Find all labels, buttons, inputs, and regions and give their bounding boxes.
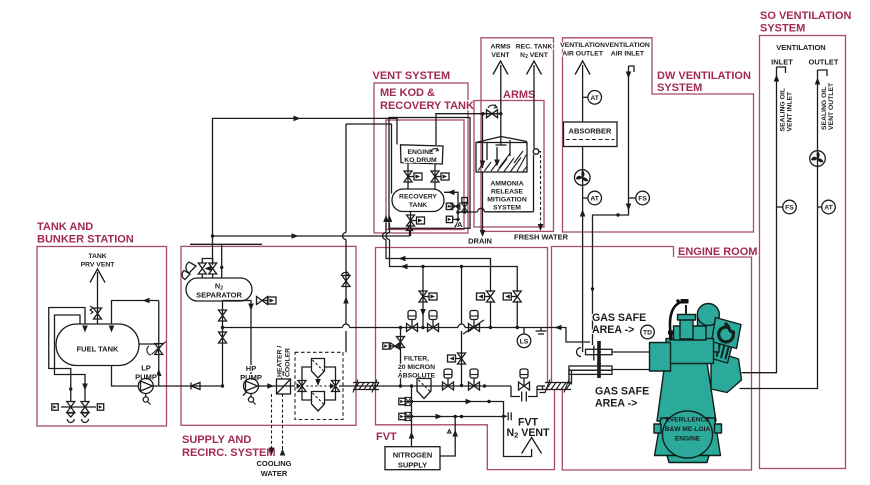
recirc valve 2 — [428, 324, 439, 332]
svg-text:AIR INLET: AIR INLET — [611, 51, 645, 58]
valve on riser — [342, 276, 350, 287]
engine turbo column — [698, 316, 720, 352]
svg-text:RELEASE: RELEASE — [491, 189, 524, 196]
valve separator drain 2 — [219, 332, 227, 343]
svg-text:BUNKER STATION: BUNKER STATION — [37, 234, 134, 246]
engine exhaust hose — [670, 302, 684, 332]
FVT vapor return line 2 — [390, 240, 518, 293]
valve ARMS vent ball — [487, 110, 498, 118]
svg-text:RECOVERY TANK: RECOVERY TANK — [380, 100, 474, 112]
fresh water dashed line — [539, 152, 541, 229]
wire FVT liquid header — [401, 385, 512, 387]
engine cooler fins — [709, 340, 733, 363]
vent arrow ARMS — [493, 61, 508, 75]
inlet bracket — [777, 67, 786, 73]
wire N2 distribution upper — [412, 402, 504, 417]
drip tray 2 — [82, 413, 89, 423]
svg-text:SUPPLY AND: SUPPLY AND — [182, 434, 251, 446]
svg-text:FS: FS — [638, 196, 647, 203]
absorber — [564, 122, 618, 147]
wire LP pump discharge — [153, 385, 223, 387]
svg-text:DRAIN: DRAIN — [468, 237, 492, 246]
valve separator drain 1 — [219, 310, 227, 321]
fan DW — [575, 170, 591, 186]
svg-text:FUEL TANK: FUEL TANK — [77, 345, 119, 354]
filter element bottom — [312, 392, 325, 412]
wire duct below absorber — [582, 147, 584, 353]
engine flywheel — [663, 411, 713, 458]
vent arrow REC tank — [527, 61, 542, 75]
valve return 1 — [487, 291, 495, 302]
svg-text:SEALING OIL: SEALING OIL — [821, 87, 828, 130]
wire supply riser to vent system — [345, 124, 347, 233]
svg-text:VENTILATION: VENTILATION — [776, 43, 825, 52]
svg-text:SO VENTILATION: SO VENTILATION — [760, 10, 852, 22]
wire inlet duct — [593, 66, 629, 345]
wire recovery tank right header — [444, 192, 458, 226]
ARMS tank top 3d — [476, 137, 527, 143]
svg-text:B&W ME-LGIA: B&W ME-LGIA — [665, 426, 711, 433]
vent connector — [502, 415, 505, 418]
svg-text:MITIGATION: MITIGATION — [487, 197, 527, 204]
N2 separator — [186, 278, 252, 301]
svg-text:ENGINE: ENGINE — [407, 149, 434, 156]
svg-text:AREA ->: AREA -> — [592, 324, 634, 336]
instrument AT SO — [818, 206, 822, 208]
heater/cooler — [277, 379, 291, 394]
wire outlet duct — [582, 65, 584, 122]
recirc valve 1 — [407, 324, 418, 332]
outlet vent arrow — [575, 61, 590, 75]
svg-text:PUMP: PUMP — [135, 373, 157, 382]
drip tray 1 — [67, 413, 74, 423]
engine chain case — [711, 350, 742, 393]
wire FVT N2 vent — [504, 416, 532, 456]
wire vapor line tank to ME KOD — [213, 118, 390, 265]
svg-text:RECOVERY: RECOVERY — [399, 194, 437, 201]
closed drain symbol — [536, 328, 547, 335]
engine A-frame — [657, 362, 716, 421]
riser between headers — [399, 326, 402, 329]
svg-text:AIR OUTLET: AIR OUTLET — [562, 51, 604, 58]
wire bunker fill inner loop — [55, 315, 86, 402]
instrument AT lower — [583, 197, 588, 199]
instrument TD — [641, 325, 655, 339]
pump HP drain — [250, 394, 252, 398]
wire to FVT — [339, 385, 401, 387]
wire long vapor line from supply riser — [346, 124, 392, 193]
wire drum to recovery tank legs — [407, 163, 409, 189]
control valve main — [469, 324, 480, 332]
engine silencer spiral — [719, 323, 734, 342]
box ARMS — [474, 101, 544, 228]
wire return line elbow — [555, 325, 562, 331]
wire nitrogen second feed — [440, 417, 455, 457]
svg-text:ARMS: ARMS — [490, 44, 510, 51]
box vent risers — [481, 38, 554, 232]
pump LP drain — [145, 394, 147, 398]
black enclosure ME KOD unit — [389, 118, 470, 229]
relief valve left of cluster — [186, 262, 196, 273]
svg-text:TD: TD — [643, 330, 652, 337]
engine charge air cooler — [712, 318, 742, 349]
svg-text:TANK: TANK — [409, 202, 427, 209]
svg-text:VENT: VENT — [491, 52, 510, 59]
svg-text:SYSTEM: SYSTEM — [657, 82, 702, 94]
svg-text:VENT INLET: VENT INLET — [787, 91, 794, 131]
box VENT SYSTEM — [374, 83, 468, 233]
svg-text:ARMS: ARMS — [503, 89, 535, 101]
check valve after LP pump — [191, 383, 200, 390]
FVT vapor return line 1 — [386, 240, 491, 293]
inlet duct bracket — [629, 66, 635, 72]
svg-text:REC. TANK: REC. TANK — [516, 44, 553, 51]
relief on heater — [282, 371, 285, 379]
svg-text:SEALING OIL: SEALING OIL — [780, 88, 787, 131]
wire feed elbow into drum — [389, 118, 397, 144]
svg-text:EVERLLENCE: EVERLLENCE — [665, 417, 710, 424]
wire ARMS enclosure right — [533, 155, 535, 212]
instrument FS — [629, 197, 636, 199]
gas supply double pipe — [569, 368, 572, 384]
svg-text:ENGINE: ENGINE — [675, 436, 701, 443]
purge valve 2 — [456, 218, 459, 221]
wire tank right tap — [139, 343, 159, 345]
engine bedplate — [655, 418, 721, 456]
wire drum vent riser — [436, 114, 501, 145]
instrument AT upper — [583, 96, 588, 98]
wire vapor header to FVT returns — [213, 235, 407, 237]
svg-text:ABSORBER: ABSORBER — [569, 127, 613, 136]
dual filter dashed box — [295, 352, 343, 419]
instrument FS SO — [777, 206, 783, 208]
vent chevron — [522, 438, 542, 454]
box SUPPLY AND RECIRC. SYSTEM — [181, 246, 356, 425]
wire vapor line elbow up to KOD box — [406, 231, 410, 236]
bulkhead hatch FVT-engine — [545, 380, 571, 393]
relief valve PRV — [94, 308, 102, 319]
wire separator drain — [222, 301, 224, 386]
svg-text:PRV VENT: PRV VENT — [81, 262, 116, 269]
engine head block — [674, 326, 707, 340]
svg-text:FRESH WATER: FRESH WATER — [514, 233, 569, 242]
box ENGINE ROOM — [552, 247, 674, 384]
cooling water dashed lines — [271, 394, 273, 450]
valve drum leg 1 — [404, 171, 412, 182]
svg-text:N2 VENT: N2 VENT — [520, 52, 549, 60]
valve liquid 1 — [443, 382, 454, 390]
bunker valve 2 — [81, 402, 89, 413]
box SO VENTILATION SYSTEM — [760, 36, 846, 469]
svg-text:SYSTEM: SYSTEM — [493, 205, 521, 212]
svg-text:SYSTEM: SYSTEM — [760, 23, 805, 35]
drum internal arrow — [431, 148, 439, 152]
svg-text:HEATER /: HEATER / — [277, 346, 284, 377]
label EVERLLENCE B&W ME-LGIA ENGINE — [665, 417, 711, 443]
fan SO — [810, 151, 826, 167]
svg-text:AT: AT — [590, 196, 599, 203]
recovery tank — [392, 189, 444, 212]
svg-text:ENGINE ROOM: ENGINE ROOM — [678, 246, 757, 258]
svg-text:SUPPLY: SUPPLY — [398, 461, 427, 470]
valve gas feed with actuator — [422, 267, 424, 328]
wire recirc top line — [112, 301, 159, 325]
vent duct penetration — [577, 348, 582, 357]
nitrogen supply box — [385, 447, 440, 470]
wire HP pump recirc — [223, 301, 252, 379]
engine foot — [667, 456, 709, 463]
equalize valve down — [460, 265, 463, 268]
bulkhead hatch supply-FVT — [353, 380, 379, 393]
three way valve right — [332, 381, 340, 392]
vent arrow — [90, 269, 105, 283]
outlet bracket — [818, 70, 828, 76]
blind flange left — [52, 404, 58, 410]
svg-text:VENTILATION: VENTILATION — [560, 42, 605, 49]
wire separator inlet — [221, 244, 223, 278]
wire inlet header — [190, 243, 262, 245]
svg-text:N2 VENT: N2 VENT — [506, 427, 550, 440]
svg-text:RECIRC. SYSTEM: RECIRC. SYSTEM — [182, 447, 276, 459]
wire PRV vent line — [97, 272, 99, 324]
svg-text:AMMONIA: AMMONIA — [490, 181, 523, 188]
svg-text:VENT OUTLET: VENT OUTLET — [828, 82, 835, 130]
svg-text:FVT: FVT — [376, 431, 397, 443]
engine cylinder — [680, 320, 693, 340]
engine mid block — [666, 339, 714, 364]
svg-text:COOLER: COOLER — [285, 348, 292, 377]
svg-text:NITROGEN: NITROGEN — [393, 451, 433, 460]
wire HP discharge — [259, 385, 296, 387]
svg-text:OUTLET: OUTLET — [809, 58, 839, 67]
valve on drain header — [464, 203, 466, 212]
valve cluster above N2 separator — [202, 259, 212, 264]
valve on recirc with actuator — [257, 297, 268, 305]
N2 purge stub 1 — [410, 400, 413, 403]
svg-text:KO DRUM: KO DRUM — [404, 157, 437, 164]
wire REC tank vent riser — [533, 65, 535, 149]
box ME KOD & RECOVERY TANK — [386, 120, 464, 230]
svg-text:GAS SAFE: GAS SAFE — [592, 312, 646, 324]
N2 purge stub 2 — [410, 415, 413, 418]
blind flange right — [97, 404, 103, 410]
svg-text:PUMP: PUMP — [240, 373, 262, 382]
purge valve 1 — [456, 205, 459, 208]
svg-text:WATER: WATER — [261, 469, 288, 478]
svg-text:AREA ->: AREA -> — [595, 398, 637, 410]
fuel tank FT — [56, 324, 139, 366]
svg-text:TANK: TANK — [88, 253, 106, 260]
valve liquid 2 — [469, 382, 480, 390]
engine small mast — [685, 305, 687, 315]
wire gas supply to engine — [612, 369, 650, 371]
wire sealing oil vent outlet — [740, 70, 818, 389]
wire recirc vertical — [158, 301, 160, 387]
filter changeover loop — [302, 367, 336, 386]
svg-text:VENT SYSTEM: VENT SYSTEM — [373, 70, 451, 82]
arrow into tank — [82, 326, 88, 333]
svg-text:FILTER,: FILTER, — [404, 356, 429, 363]
svg-text:HP: HP — [246, 364, 256, 373]
wire N2 distribution lower — [412, 416, 504, 418]
svg-text:AT: AT — [590, 95, 599, 102]
wire ARMS drain — [482, 172, 484, 234]
valve tank drain — [407, 215, 415, 226]
engine KO drum — [401, 145, 444, 164]
filter element top — [312, 359, 325, 379]
svg-text:TANK AND: TANK AND — [37, 221, 93, 233]
wire recovery tank drain — [410, 212, 412, 237]
main gas block valve — [519, 382, 530, 390]
svg-text:GAS SAFE: GAS SAFE — [595, 386, 649, 398]
wire vent duct to engine — [612, 351, 650, 353]
svg-text:AT: AT — [824, 205, 833, 212]
wire bunker fill outer loop — [49, 308, 85, 403]
svg-text:COOLING: COOLING — [257, 459, 292, 468]
filter 20 micron — [417, 379, 431, 399]
svg-text:20 MICRON: 20 MICRON — [398, 364, 435, 371]
side tap with blind — [389, 345, 401, 347]
pump HP — [244, 379, 259, 394]
svg-text:INLET: INLET — [771, 58, 793, 67]
wire tank bottom outlet to LP pump — [112, 366, 139, 387]
wire sealing oil vent inlet — [742, 67, 777, 373]
wire drain header to ARMS — [456, 211, 459, 214]
valve drum leg 2 — [431, 171, 439, 182]
valve recirc control — [155, 344, 163, 355]
box DW VENTILATION SYSTEM — [563, 38, 754, 232]
closed drain at header end — [537, 386, 548, 393]
svg-text:DW VENTILATION: DW VENTILATION — [657, 70, 751, 82]
wire branch into ARMS tank — [482, 114, 484, 168]
hatching — [478, 151, 527, 172]
svg-text:LP: LP — [141, 364, 151, 373]
svg-text:ME KOD &: ME KOD & — [380, 87, 435, 99]
bypass loop with bars — [511, 386, 537, 397]
ARMS mitigation tank — [476, 143, 527, 173]
svg-text:A: A — [457, 220, 463, 229]
wire ARMS vent riser — [500, 65, 502, 145]
valve return 2 — [513, 291, 521, 302]
box FVT — [376, 248, 555, 470]
engine side tabs — [654, 424, 722, 433]
engine turbo dome — [697, 304, 719, 326]
svg-text:FS: FS — [785, 205, 794, 212]
bunker valve 1 — [67, 402, 75, 413]
wire manifold — [61, 406, 96, 408]
svg-text:LS: LS — [520, 338, 529, 345]
box TANK AND BUNKER STATION — [37, 247, 167, 427]
engine left gallery — [650, 343, 671, 372]
three way valve left — [298, 381, 306, 392]
pump LP — [138, 379, 153, 394]
wire recirc return header — [223, 327, 343, 329]
spray nozzle — [533, 149, 539, 155]
instrument LS — [523, 328, 525, 335]
nitrogen feed riser — [411, 386, 413, 447]
svg-text:VENTILATION: VENTILATION — [605, 42, 650, 49]
svg-text:SEPARATOR: SEPARATOR — [196, 291, 242, 300]
